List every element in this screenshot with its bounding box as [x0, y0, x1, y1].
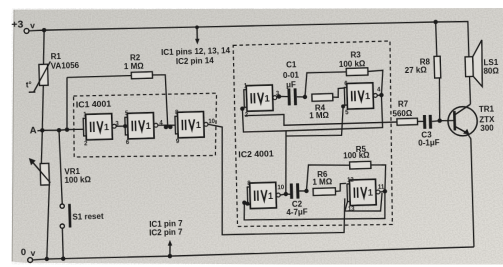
svg-text:R3: R3 — [350, 50, 361, 59]
IC1 gate 1 (pins 1,2,3) — [86, 114, 113, 140]
gate B output junction pin 4 — [379, 93, 384, 98]
svg-text:80Ω: 80Ω — [483, 67, 499, 76]
long feedback wire to gate B output — [242, 95, 382, 132]
capacitor C2 4.7uF — [286, 193, 291, 196]
0V terminal — [28, 258, 33, 263]
svg-text:100 kΩ: 100 kΩ — [64, 175, 91, 185]
svg-text:1 MΩ: 1 MΩ — [124, 62, 145, 72]
svg-text:0: 0 — [21, 247, 27, 258]
svg-text:1 MΩ: 1 MΩ — [309, 111, 330, 121]
svg-text:A: A — [30, 125, 37, 136]
gate C input junction — [242, 200, 247, 205]
junction C3/R8/base — [437, 118, 442, 123]
resistor R6 1M — [313, 188, 335, 196]
capacitor C3 0.1uF — [423, 115, 426, 129]
node Y junction — [304, 189, 309, 194]
gate B input tie to mid wire — [343, 105, 345, 106]
resistor R2 1M — [65, 77, 68, 129]
IC1 pin10 wire to IC2 lower gate — [208, 120, 346, 236]
svg-text:0-1μF: 0-1μF — [418, 138, 440, 148]
IC1 4001 dashed outline — [72, 92, 218, 160]
junction +3V/R8 — [433, 20, 438, 25]
svg-text:TR1: TR1 — [479, 105, 495, 114]
gate A loop wire to R7 line — [245, 111, 397, 126]
svg-text:4-7μF: 4-7μF — [286, 207, 308, 217]
svg-text:C1: C1 — [286, 60, 297, 69]
junction 0V/S1 — [61, 256, 66, 261]
svg-text:S1 reset: S1 reset — [72, 212, 104, 222]
node X junction — [303, 95, 308, 100]
IC ground arrow (IC1 pin 7 / IC2 pin 7) — [168, 254, 173, 259]
resistor R7 560 — [397, 118, 418, 125]
svg-text:IC2 pin 14: IC2 pin 14 — [176, 56, 215, 66]
gate C output junction — [284, 192, 289, 197]
resistor R8 27k — [436, 22, 437, 56]
IC2 gate A (pins 1,2,3) — [246, 85, 273, 111]
svg-text:+3: +3 — [11, 19, 23, 31]
svg-text:0-01: 0-01 — [283, 71, 300, 80]
svg-text:IC1 4001: IC1 4001 — [76, 98, 112, 109]
svg-text:12: 12 — [347, 178, 355, 184]
gate D feedback wire to gate C input — [243, 191, 385, 222]
resistor R3 100k feedback — [304, 72, 347, 97]
switch S1 reset — [59, 130, 62, 204]
IC1 gate 3 (pins 8,9,10) — [177, 112, 204, 138]
svg-text:100 kΩ: 100 kΩ — [339, 59, 366, 69]
svg-text:VA1056: VA1056 — [51, 61, 80, 71]
thermistor R1 VA1056 — [43, 30, 46, 64]
preset VR1 100k — [40, 130, 43, 163]
mid wire gateB input to gateC riser — [285, 106, 344, 137]
svg-text:μF: μF — [286, 80, 296, 89]
resistor R4 1M — [312, 94, 333, 102]
0V rail wire — [33, 247, 474, 260]
resistor R5 100k feedback — [306, 164, 351, 191]
svg-text:27 kΩ: 27 kΩ — [405, 66, 428, 76]
IC2 4001 dashed outline — [232, 41, 395, 229]
capacitor C1 0.01uF — [277, 94, 282, 99]
junction +3V/R1 — [42, 28, 47, 33]
svg-text:100 kΩ: 100 kΩ — [343, 150, 370, 160]
junction A/R1/VR1 — [40, 128, 45, 133]
svg-text:v: v — [30, 248, 35, 258]
svg-text:R1: R1 — [51, 52, 62, 61]
svg-text:R7: R7 — [398, 99, 409, 108]
junction R2/gate3 input — [164, 125, 169, 130]
svg-text:t°: t° — [26, 80, 32, 89]
gate A input feedback node — [240, 106, 245, 111]
IC1 gate 2 (pins 5,6,4) — [127, 113, 154, 139]
+3V rail wire — [29, 18, 469, 69]
svg-text:560Ω: 560Ω — [392, 109, 413, 119]
riser junction to mid wire — [284, 136, 287, 187]
svg-text:IC2 4001: IC2 4001 — [238, 148, 274, 159]
svg-text:v: v — [30, 20, 35, 30]
gate D pin13 loop wire — [344, 193, 382, 212]
emitter wire — [467, 133, 474, 247]
+3V terminal — [24, 28, 29, 33]
svg-text:1 MΩ: 1 MΩ — [312, 177, 333, 187]
svg-text:13: 13 — [348, 207, 356, 213]
svg-text:10: 10 — [277, 185, 285, 191]
transistor TR1 ZTX300 — [448, 106, 478, 136]
svg-text:IC2 pin 7: IC2 pin 7 — [149, 228, 183, 238]
IC2 gate B (pins 5,6,4) — [347, 83, 374, 109]
svg-text:300: 300 — [480, 124, 494, 133]
collector wire — [468, 75, 471, 104]
IC supply arrow (IC1 pins 12,13,14 / IC2 pin 14) — [196, 27, 198, 39]
IC2 gate D (pins 12,13,11) — [349, 179, 376, 205]
junction A/R2 — [65, 127, 70, 132]
node A wire to IC1 input — [37, 129, 80, 131]
loudspeaker LS1 80ohm — [465, 57, 473, 77]
junction A/S1 — [57, 128, 62, 133]
gate D output junction pin 11 — [383, 189, 388, 194]
IC2 gate C (pins 8,9,10) — [250, 182, 277, 208]
gate C output riser to long wire — [284, 131, 288, 194]
junction 0V/VR1 — [45, 257, 50, 262]
